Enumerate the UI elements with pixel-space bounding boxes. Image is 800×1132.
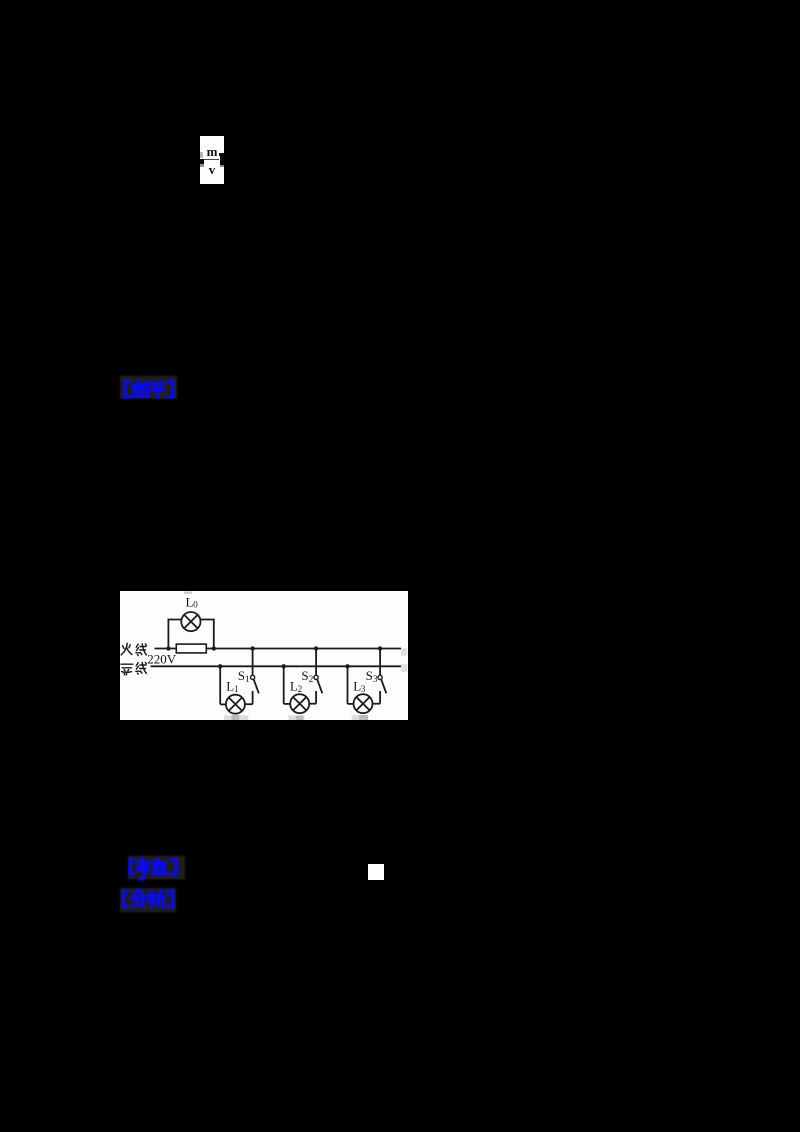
svg-text:S: S: [238, 668, 245, 683]
svg-text:S: S: [301, 668, 308, 683]
svg-text:2: 2: [298, 684, 303, 694]
svg-text:220V: 220V: [147, 652, 177, 667]
svg-text:3: 3: [373, 674, 378, 684]
svg-text:0: 0: [193, 600, 198, 610]
svg-text:S: S: [366, 668, 373, 683]
svg-text:3: 3: [361, 684, 366, 694]
svg-text:1: 1: [234, 684, 239, 694]
svg-text:1: 1: [245, 674, 250, 684]
svg-text:2: 2: [309, 674, 314, 684]
